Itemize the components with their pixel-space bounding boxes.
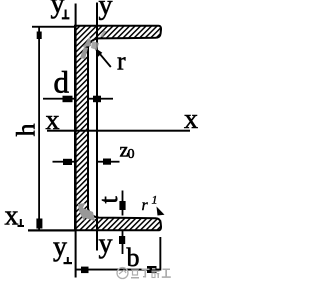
dimension b line — [76, 269, 161, 271]
dimension h bottom arrow (square) — [36, 219, 42, 229]
dimension d left arrow — [63, 96, 73, 103]
dimension b right arrow — [147, 266, 157, 273]
watermark logo circle — [117, 268, 128, 279]
svg-text:y: y — [51, 0, 65, 20]
svg-text:y: y — [53, 232, 67, 263]
top extension line (section top edge extended left) — [32, 26, 76, 28]
watermark text 豆丁施工 (drawn as grey glyph blobs) — [131, 268, 171, 279]
dimension h top arrow (square) — [37, 32, 42, 40]
leader arrowhead for r1 (points to flange tip) — [157, 207, 165, 216]
svg-text:x: x — [184, 104, 198, 135]
watermark grey arrow at bottom fillet — [78, 203, 95, 221]
svg-text:h: h — [12, 124, 41, 137]
dimension t upper arrow — [119, 201, 125, 210]
dimension t lower arrow — [119, 236, 125, 244]
svg-text:y: y — [99, 229, 113, 260]
dimension d right line — [89, 98, 113, 100]
dimension d left line — [43, 98, 75, 100]
svg-text:d: d — [54, 65, 70, 100]
dimension z0 right line — [98, 161, 120, 163]
svg-text:1: 1 — [152, 193, 158, 207]
leader arrow for r (points to web-flange fillet) — [100, 54, 111, 68]
dimension z0 left arrow — [63, 159, 72, 165]
svg-text:x: x — [46, 105, 60, 136]
svg-text:r: r — [117, 47, 126, 76]
dimension h line — [38, 27, 40, 230]
svg-text:y: y — [99, 0, 113, 21]
svg-text:b: b — [127, 243, 140, 272]
channel section profile (web + two flanges, hatched) — [75, 26, 161, 231]
svg-text:r: r — [142, 197, 149, 214]
dimension t upper line — [122, 191, 124, 216]
axis x-x (horizontal centroid axis) — [47, 130, 190, 132]
bottom extension line / x1 axis line — [28, 229, 76, 231]
axis y (centroid, vertical) — [96, 3, 98, 251]
dimension t lower line — [122, 231, 124, 254]
svg-text:0: 0 — [128, 147, 135, 162]
axis y1 (back of web, vertical) — [75, 4, 77, 278]
dimension b left arrow — [81, 267, 89, 274]
svg-text:t: t — [94, 196, 123, 204]
svg-text:x: x — [5, 201, 19, 232]
watermark grey arrow at top fillet — [80, 47, 88, 59]
dimension b right extension line — [159, 237, 161, 271]
dimension z0 left line — [53, 161, 76, 163]
watermark grey streak in top flange — [100, 31, 107, 38]
dimension d right arrow — [93, 96, 101, 103]
dimension z0 right arrow — [103, 159, 111, 165]
